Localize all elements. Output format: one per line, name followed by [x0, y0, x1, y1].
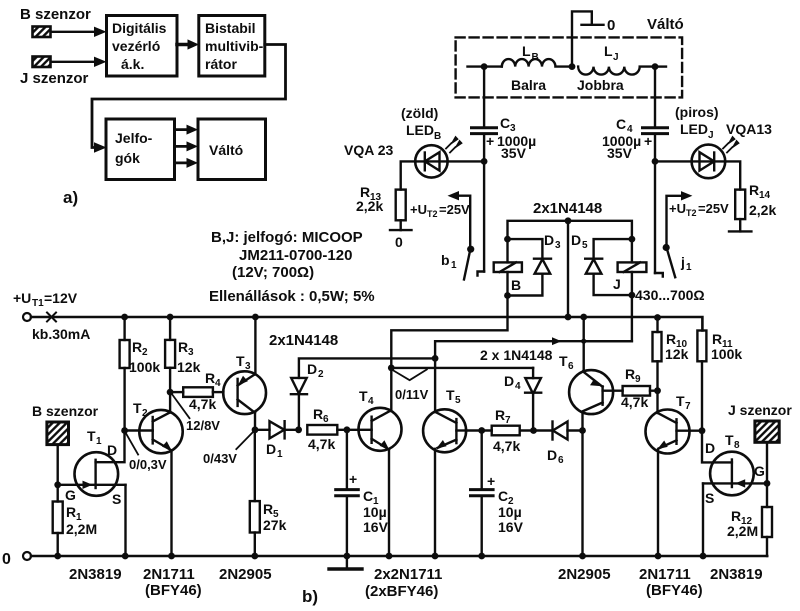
label C4 values: [602, 116, 652, 161]
svg-text:2N2905: 2N2905: [558, 566, 611, 583]
svg-text:B szenzor: B szenzor: [20, 6, 91, 23]
wire +UT2 right feed arrow: [667, 191, 693, 245]
label relay info line2: [239, 247, 352, 264]
svg-text:R: R: [749, 182, 759, 198]
label 2N3819 left: [69, 566, 122, 583]
svg-text:(zöld): (zöld): [401, 105, 438, 121]
label S (T1 source): [112, 491, 121, 507]
block Jelfogok: [106, 119, 175, 180]
svg-text:3: 3: [245, 361, 251, 372]
node relay J top: [629, 236, 636, 243]
svg-text:9: 9: [635, 374, 641, 385]
wire sensor B arrow to digital block: [51, 27, 107, 37]
svg-text:Bistabil: Bistabil: [205, 20, 256, 36]
node B szenzor label (block diagram): [20, 6, 91, 23]
block Valto (diagram a): [198, 119, 266, 180]
ground symbol under C1: [329, 556, 362, 569]
label D3: [544, 232, 561, 251]
svg-text:B: B: [532, 52, 539, 63]
svg-text:4: 4: [368, 396, 374, 407]
svg-text:3: 3: [188, 347, 194, 358]
node bus R10: [654, 314, 661, 321]
capacitor C1: [336, 430, 359, 556]
label 12/8V with leader: [172, 394, 190, 419]
svg-text:G: G: [65, 487, 76, 503]
relay coil B: [494, 239, 522, 295]
svg-text:T2: T2: [427, 209, 438, 219]
LED B symbol: [415, 137, 462, 178]
svg-text:6: 6: [558, 455, 564, 466]
node 0 terminal label: [607, 17, 615, 34]
svg-text:LED: LED: [680, 121, 708, 137]
label 2x1N4148 (D4 D6): [480, 347, 553, 363]
label Jobbra: [577, 77, 624, 93]
svg-text:(piros): (piros): [675, 104, 719, 120]
label 0/11V with V mark: [393, 370, 427, 381]
svg-text:1: 1: [277, 449, 283, 460]
svg-text:100k: 100k: [129, 359, 160, 375]
inductor LJ coil: [578, 67, 655, 75]
svg-text:rátor: rátor: [205, 56, 237, 72]
svg-text:T: T: [676, 393, 685, 409]
svg-text:(12V; 700Ω): (12V; 700Ω): [232, 264, 314, 281]
svg-text:T: T: [559, 353, 568, 369]
sensor J hatched box: [33, 57, 51, 68]
wire LED B cathode to R13: [401, 161, 416, 189]
label relay info line3: [232, 264, 314, 281]
wire R13 to ground: [400, 220, 402, 230]
label R13 2,2k: [356, 184, 383, 214]
label (2xBFY46): [365, 583, 438, 600]
svg-text:12k: 12k: [665, 346, 689, 362]
svg-text:+: +: [644, 133, 652, 149]
label +UT2=25V right: [669, 201, 729, 218]
node bottom T1 source: [122, 553, 129, 560]
label (BFY46) right: [646, 582, 703, 599]
svg-text:=25V: =25V: [698, 201, 729, 216]
svg-text:7: 7: [505, 415, 511, 426]
svg-text:D: D: [571, 232, 581, 248]
node C2 junction: [478, 427, 485, 434]
label S (T8 source): [705, 490, 714, 506]
resistor R4: [170, 387, 223, 397]
svg-text:2N2905: 2N2905: [219, 566, 272, 583]
svg-text:8: 8: [734, 440, 740, 451]
label 430...700 ohm: [635, 287, 705, 303]
node LED B junction: [481, 158, 488, 165]
svg-text:B: B: [434, 131, 441, 142]
svg-text:5: 5: [455, 395, 461, 406]
svg-text:4,7k: 4,7k: [308, 436, 335, 452]
capacitor C2: [471, 431, 494, 557]
node R6 left junction: [295, 426, 302, 433]
label C2 values: [487, 473, 524, 535]
node D6 T6 collector junction: [579, 427, 586, 434]
label b): [302, 587, 318, 606]
svg-text:10µ: 10µ: [363, 504, 387, 520]
node T3 collector junction: [252, 426, 259, 433]
node bottom T5 emitter: [432, 553, 439, 560]
svg-text:R: R: [132, 339, 142, 355]
svg-text:2 x 1N4148: 2 x 1N4148: [480, 347, 553, 363]
svg-text:C: C: [363, 488, 373, 504]
label (zold): [401, 105, 438, 121]
label R4 4,7k: [189, 370, 221, 412]
wire C4 column upper: [654, 67, 656, 126]
label T7: [676, 393, 691, 412]
resistor R9: [623, 386, 658, 396]
node junction center coils: [569, 63, 576, 70]
svg-text:0/11V: 0/11V: [395, 387, 429, 402]
node J szenzor label (block diagram): [20, 70, 89, 87]
label D2: [307, 361, 324, 380]
transistor T5: [423, 409, 466, 556]
wire T5 collector to relay B line junction: [435, 337, 632, 358]
label VQA 23: [344, 142, 393, 158]
label j1: [680, 254, 692, 273]
diode D4: [525, 368, 541, 431]
resistor R1: [53, 485, 63, 556]
node relay B top: [504, 236, 511, 243]
svg-text:j: j: [680, 254, 685, 270]
svg-text:2N3819: 2N3819: [69, 566, 122, 583]
node bottom T7 emitter: [655, 553, 662, 560]
node 0V terminal: [2, 551, 11, 568]
svg-text:2: 2: [318, 369, 324, 380]
svg-text:2,2M: 2,2M: [727, 523, 758, 539]
capacitor C4: [643, 128, 668, 134]
label a): [63, 188, 78, 207]
svg-text:2,2M: 2,2M: [66, 521, 97, 537]
svg-text:á.k.: á.k.: [121, 56, 144, 72]
wire R11 column to T8 drain: [702, 431, 732, 463]
svg-text:J: J: [613, 52, 619, 63]
node bottom R5: [251, 553, 258, 560]
wire X mark on supply: [47, 313, 56, 322]
wire inductor rail right stub: [655, 65, 666, 67]
svg-text:Váltó: Váltó: [647, 16, 684, 33]
node T2 collector junction: [167, 389, 174, 396]
ground 0 under R13: [390, 229, 412, 231]
node relay J bottom: [629, 292, 636, 299]
svg-text:T: T: [359, 388, 368, 404]
transistor T2: [125, 410, 183, 556]
label D (T8 drain): [705, 440, 715, 456]
transistor T6: [569, 370, 623, 556]
svg-text:T: T: [725, 432, 734, 448]
svg-text:12/8V: 12/8V: [186, 418, 220, 433]
svg-text:16V: 16V: [498, 519, 524, 535]
label 2N2905 right: [558, 566, 611, 583]
label D5: [571, 232, 588, 251]
svg-text:L: L: [604, 43, 613, 59]
node bus R3: [167, 314, 174, 321]
resistor R12: [762, 483, 772, 556]
wire inductor rail left stub: [468, 65, 502, 67]
wire LED B anode to C3 node: [448, 160, 485, 162]
svg-text:T1: T1: [32, 298, 44, 309]
label 2N3819 right: [710, 566, 763, 583]
label T2: [133, 400, 148, 419]
svg-text:multivib-: multivib-: [205, 38, 264, 54]
svg-text:D: D: [705, 440, 715, 456]
svg-text:4,7k: 4,7k: [493, 438, 520, 454]
svg-text:D: D: [266, 441, 276, 457]
label 2x1N4148 (relay diodes): [533, 200, 602, 217]
svg-text:5: 5: [582, 240, 588, 251]
wire top bus +12V: [31, 317, 702, 331]
diode D5: [585, 239, 632, 295]
svg-text:R: R: [666, 331, 676, 347]
svg-text:R: R: [495, 407, 505, 423]
svg-text:1: 1: [451, 260, 457, 271]
svg-text:14: 14: [759, 190, 771, 201]
wire T6 emitter column: [583, 317, 585, 371]
svg-text:3: 3: [555, 240, 561, 251]
resistor R10: [653, 318, 662, 414]
node T8 gate junction: [764, 480, 771, 487]
svg-text:D: D: [107, 442, 117, 458]
node T1 gate junction: [54, 481, 61, 488]
svg-text:b: b: [441, 252, 450, 268]
label 0/43V with leader: [236, 432, 253, 450]
svg-text:2: 2: [142, 347, 148, 358]
svg-text:6: 6: [323, 414, 329, 425]
svg-text:2,2k: 2,2k: [356, 198, 383, 214]
node D2 top junction: [432, 355, 439, 362]
svg-text:+U: +U: [669, 201, 686, 216]
wire relay B bottom to T4 collector: [391, 296, 507, 368]
svg-text:T: T: [133, 400, 142, 416]
svg-text:10µ: 10µ: [498, 504, 522, 520]
svg-text:JM211-0700-120: JM211-0700-120: [239, 247, 352, 264]
wire T5 collector column: [434, 358, 436, 412]
svg-text:4,7k: 4,7k: [189, 396, 216, 412]
wire 0 terminal hook: [572, 11, 604, 66]
label R12 2,2M: [727, 508, 758, 539]
label b1: [441, 252, 457, 271]
resistor R5: [250, 430, 260, 556]
svg-text:+: +: [487, 473, 495, 489]
label LED J: [680, 121, 714, 141]
resistor R11: [697, 331, 706, 431]
transistor T7: [646, 410, 703, 557]
node bus center column: [565, 314, 572, 321]
node bus T3 emitter: [252, 314, 259, 321]
svg-text:J szenzor: J szenzor: [728, 402, 792, 418]
label LJ: [604, 43, 619, 63]
node bottom C2: [478, 553, 485, 560]
svg-text:B,J: jelfogó: MICOOP: B,J: jelfogó: MICOOP: [211, 229, 363, 246]
resistor R6: [307, 425, 359, 435]
node bus T6 emitter: [580, 314, 587, 321]
sensor B hatched box: [33, 27, 51, 38]
svg-text:B: B: [511, 277, 521, 293]
wire sensor J arrow to digital block: [51, 57, 107, 67]
label D (T1 drain): [107, 442, 117, 458]
svg-text:D: D: [504, 373, 514, 389]
svg-text:J szenzor: J szenzor: [20, 70, 89, 87]
svg-text:R: R: [712, 331, 722, 347]
block Bistabil multivibrator: [199, 16, 265, 77]
svg-text:D: D: [547, 447, 557, 463]
svg-text:T2: T2: [686, 208, 697, 218]
node bottom T2 emitter: [168, 553, 175, 560]
svg-text:1: 1: [96, 436, 102, 447]
label R2 100k: [129, 339, 160, 375]
wire bistabil feedback to jelfogok: [92, 45, 286, 153]
switch j1 blade: [663, 244, 676, 277]
svg-text:430...700Ω: 430...700Ω: [635, 287, 705, 303]
svg-text:J: J: [708, 130, 714, 141]
sensor B hatched box (schematic): [47, 422, 69, 445]
svg-text:4: 4: [515, 381, 521, 392]
transistor T4: [359, 368, 402, 556]
svg-text:+U: +U: [410, 202, 427, 217]
svg-text:VQA13: VQA13: [726, 121, 772, 137]
label Valto (schematic): [647, 16, 684, 33]
label D1: [266, 441, 283, 460]
svg-text:D: D: [544, 232, 554, 248]
svg-text:vezérló: vezérló: [112, 38, 160, 54]
svg-text:D: D: [307, 361, 317, 377]
svg-text:R: R: [178, 339, 188, 355]
node bottom C1: [344, 553, 351, 560]
wire C4 column lower to j1 contact: [655, 135, 663, 277]
svg-text:T: T: [87, 428, 96, 444]
label (piros): [675, 104, 719, 120]
label resistors info: [209, 288, 375, 305]
wire center column from diode rail to bus: [567, 221, 569, 317]
node bus R2: [121, 314, 128, 321]
label R3 12k: [177, 339, 201, 375]
label R10 12k: [665, 331, 689, 362]
node T6 relay feed junction: [581, 339, 586, 344]
svg-text:7: 7: [685, 401, 691, 412]
label R1 2,2M: [66, 504, 97, 537]
resistor R13: [396, 190, 406, 221]
node LED J junction: [652, 158, 659, 165]
svg-text:+: +: [349, 471, 357, 487]
label R14 2,2k: [749, 182, 776, 218]
label +UT2=25V left: [410, 202, 470, 219]
svg-text:6: 6: [568, 361, 574, 372]
svg-text:Balra: Balra: [511, 77, 546, 93]
svg-text:0: 0: [395, 234, 403, 250]
resistor R7: [492, 426, 534, 436]
wire sensor B to gate node: [57, 445, 59, 485]
label (BFY46) left: [145, 582, 202, 599]
svg-text:2x2N1711: 2x2N1711: [374, 566, 442, 583]
capacitor C3: [472, 128, 497, 134]
svg-text:4,7k: 4,7k: [621, 394, 648, 410]
svg-text:Ellenállások : 0,5W; 5%: Ellenállások : 0,5W; 5%: [209, 288, 375, 305]
label D6: [547, 447, 564, 466]
transistor T1 FET: [58, 431, 126, 557]
LED J symbol: [692, 137, 739, 179]
label C3 values: [486, 115, 536, 161]
svg-text:0/0,3V: 0/0,3V: [129, 457, 167, 472]
svg-text:LED: LED: [406, 122, 434, 138]
svg-text:16V: 16V: [363, 519, 389, 535]
node junction LJ-right: [652, 63, 659, 70]
resistor R3: [165, 317, 175, 413]
node C1 junction: [344, 426, 351, 433]
svg-text:Jelfo-: Jelfo-: [115, 130, 153, 146]
node center diode rail: [565, 217, 572, 224]
svg-text:0: 0: [2, 551, 11, 568]
wire +UT2 left feed arrow: [448, 191, 471, 248]
wire LED J anode from C4 node: [655, 160, 692, 162]
svg-text:S: S: [705, 490, 714, 506]
ground under R14: [729, 230, 751, 232]
svg-text:C: C: [500, 115, 510, 131]
svg-text:4: 4: [215, 378, 221, 389]
wire R14 to ground: [739, 219, 741, 231]
label R6 4,7k: [308, 406, 335, 452]
label G (T8 gate): [754, 463, 765, 479]
diode D3: [508, 239, 552, 295]
svg-text:Váltó: Váltó: [209, 142, 243, 158]
label B szenzor (schematic): [32, 403, 99, 419]
label J szenzor: [728, 402, 792, 418]
node bottom T8 source: [700, 553, 707, 560]
label 2x1N4148 (D1 D2): [269, 332, 338, 349]
node supply terminal: [23, 313, 31, 321]
svg-text:12k: 12k: [177, 359, 201, 375]
svg-text:+: +: [486, 133, 494, 149]
svg-text:R: R: [66, 504, 76, 520]
svg-text:T: T: [236, 353, 245, 369]
svg-text:0: 0: [607, 17, 615, 34]
label LB: [522, 43, 539, 63]
label relay info line1: [211, 229, 363, 246]
label R11 100k: [711, 331, 742, 362]
label G (T1 gate): [65, 487, 76, 503]
svg-text:2N1711: 2N1711: [143, 566, 195, 583]
label T5: [446, 387, 461, 406]
node T7 collector junction: [654, 387, 661, 394]
label 2x2N1711: [374, 566, 442, 583]
label LED B: [406, 122, 441, 142]
label T4: [359, 388, 374, 407]
svg-text:a): a): [63, 188, 78, 207]
switch b1 blade: [464, 246, 474, 280]
svg-text:R: R: [731, 508, 741, 524]
svg-text:J: J: [613, 276, 621, 292]
label +UT1=12V: [13, 290, 78, 309]
label relay J: [613, 276, 621, 292]
svg-text:C: C: [498, 488, 508, 504]
svg-text:gók: gók: [115, 150, 140, 166]
svg-text:kb.30mA: kb.30mA: [32, 326, 90, 342]
wire C3 column upper: [483, 67, 485, 126]
label T6: [559, 353, 574, 372]
node T4 collector junction: [388, 365, 395, 372]
svg-text:2x1N4148: 2x1N4148: [269, 332, 338, 349]
label kb.30mA: [32, 326, 90, 342]
diode D6: [534, 422, 583, 440]
svg-text:100k: 100k: [711, 346, 742, 362]
transistor T3: [223, 317, 266, 430]
svg-text:VQA 23: VQA 23: [344, 142, 393, 158]
svg-text:1: 1: [686, 262, 692, 273]
label D4: [504, 373, 521, 392]
svg-text:35V: 35V: [607, 145, 633, 161]
svg-text:2: 2: [142, 408, 148, 419]
label relay B: [511, 277, 521, 293]
node bottom T6 collector: [579, 553, 586, 560]
